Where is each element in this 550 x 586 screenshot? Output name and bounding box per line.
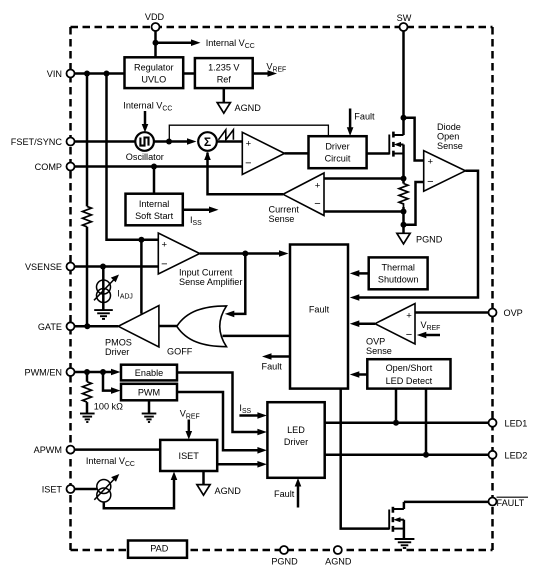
svg-text:+: + (162, 239, 168, 250)
svg-text:Circuit: Circuit (325, 154, 351, 164)
svg-text:LED: LED (287, 425, 305, 435)
svg-text:Sense: Sense (366, 346, 392, 356)
pin FSET/SYNC (67, 138, 75, 146)
svg-text:Input Current: Input Current (179, 268, 233, 278)
wire sigma to error amp (217, 140, 243, 143)
svg-text:Current: Current (269, 205, 300, 215)
wire arrow Vref into ISET (188, 420, 191, 432)
op-amp Input Current Sense Amplifier U8 (158, 233, 199, 274)
wire arrow Internal Vcc into oscillator (144, 111, 147, 125)
current source Iadj (102, 267, 105, 311)
svg-text:PGND: PGND (271, 557, 298, 567)
pin AGND (bottom) (334, 546, 342, 554)
wire PWM block to ground (148, 400, 151, 413)
wire oscillator feedback to Driver Circuit top (169, 125, 328, 141)
junction dot VIN node A (84, 71, 90, 77)
resistor R1 current sense (399, 184, 408, 208)
wire arrow Internal Vcc (top) (156, 41, 193, 44)
transistor Q2 FAULT open-drain NMOS (389, 502, 404, 539)
junction dot VSENSE Iadj branch (100, 264, 106, 270)
junction dot current sense - node (401, 209, 407, 215)
block Open/Short LED Detect (367, 359, 450, 388)
svg-text:−: − (161, 259, 167, 271)
svg-text:100 kΩ: 100 kΩ (94, 402, 123, 412)
junction dot VIN node B (104, 71, 110, 77)
pin SW (400, 23, 408, 31)
svg-text:PWM/EN: PWM/EN (24, 368, 62, 378)
svg-text:AGND: AGND (215, 486, 242, 496)
svg-text:Regulator: Regulator (134, 63, 174, 73)
svg-text:1.235 V: 1.235 V (208, 63, 240, 73)
junction dot COMP soft-start (151, 164, 157, 170)
wire VDD to Regulator UVLO (154, 31, 157, 57)
pin OVP (489, 309, 497, 317)
svg-text:−: − (314, 198, 320, 210)
op-amp OVP Sense U7 (375, 304, 415, 345)
pin COMP (67, 163, 75, 171)
svg-text:OVP: OVP (366, 336, 385, 346)
wire arrow Thermal Shutdown to Fault (358, 272, 369, 275)
junction dot PWM/EN node B (100, 369, 106, 375)
pin PWM/EN (67, 368, 75, 376)
svg-text:Fault: Fault (262, 362, 283, 372)
wire OVP pin to OVP Sense + (415, 311, 489, 314)
ground AGND (ISET) (197, 485, 210, 496)
svg-text:Ref: Ref (217, 75, 232, 85)
svg-text:Open: Open (437, 132, 459, 142)
op-amp error comparator U4 (242, 132, 284, 174)
oscillator U3 (135, 132, 154, 151)
wire arrow Iss output (183, 209, 210, 212)
svg-text:−: − (427, 176, 433, 188)
svg-text:Fault: Fault (309, 305, 330, 315)
block PWM (121, 384, 177, 401)
svg-text:OVP: OVP (504, 308, 523, 318)
block Thermal Shutdown (369, 257, 428, 289)
op-amp Current Sense U5 (283, 173, 324, 216)
wire SW node (402, 31, 405, 135)
wire R2 to GATE line (86, 227, 89, 326)
svg-text:PGND: PGND (416, 235, 443, 245)
junction dot GATE pull-up (84, 323, 90, 329)
junction dot ICSA + branch (138, 237, 144, 243)
wire arrow OVP Sense to Fault (358, 322, 375, 325)
wire oscillator to summing node (154, 140, 188, 143)
pin FAULT active low (489, 498, 497, 506)
svg-text:Σ: Σ (204, 135, 211, 149)
wire APWM to ISET (75, 448, 161, 451)
wire current sense output to sigma (208, 153, 284, 195)
junction dot diode sense - node (401, 222, 407, 228)
wire LED2 output (325, 454, 489, 457)
wire diode open sense output to Fault (358, 171, 478, 298)
svg-text:+: + (315, 180, 321, 191)
svg-text:+: + (246, 139, 252, 150)
junction dot PWM/EN node A (84, 369, 90, 375)
wire COMP to error amp inverting input (75, 165, 243, 168)
wire GOFF gate to PMOS driver (159, 325, 178, 328)
svg-text:FAULT: FAULT (497, 498, 525, 508)
body arrow Q1 (394, 142, 401, 147)
junction dot LED1 (393, 420, 399, 426)
block Fault (290, 245, 348, 389)
block Regulator UVLO (125, 57, 184, 88)
resistor R3 100 kOhm (86, 372, 89, 382)
ground (PWM block) (142, 414, 157, 423)
block Enable (121, 365, 177, 381)
wire Q2 drain to FAULT pin (404, 501, 489, 504)
pin VDD (152, 23, 160, 31)
wire ISET block to AGND (202, 471, 205, 484)
svg-text:Thermal: Thermal (381, 263, 414, 273)
pin ISET (67, 485, 75, 493)
block 1.235 V Ref U2 (195, 58, 253, 88)
wire diode open sense - input (404, 182, 424, 225)
svg-text:GATE: GATE (38, 322, 62, 332)
wire VIN branch to ICSA + input (107, 74, 159, 240)
svg-text:VSENSE: VSENSE (25, 262, 62, 272)
svg-text:−: − (245, 158, 251, 170)
ground (Q2 source) (395, 539, 415, 548)
svg-text:Enable: Enable (135, 368, 163, 378)
pin APWM (67, 446, 75, 454)
ground (Iadj) (94, 310, 113, 319)
svg-text:Fault: Fault (354, 112, 375, 122)
svg-text:ISET: ISET (42, 485, 63, 495)
pin LED1 (489, 419, 497, 427)
junction dot LED2 (423, 452, 429, 458)
svg-text:Shutdown: Shutdown (378, 275, 419, 285)
pin VSENSE (67, 263, 75, 271)
pin LED2 (489, 451, 497, 459)
wire arrow Fault into LED Driver (297, 486, 300, 508)
wire VSENSE to ICSA - input (75, 265, 159, 268)
svg-text:ISET: ISET (179, 451, 200, 461)
pin PGND (bottom) (280, 546, 288, 554)
svg-text:Driver: Driver (325, 142, 349, 152)
wire branch to PMOS driver top (140, 240, 143, 314)
svg-text:GOFF: GOFF (167, 347, 193, 357)
wire Fault to Q2 gate (341, 389, 390, 529)
svg-text:LED1: LED1 (505, 418, 528, 428)
svg-text:Soft Start: Soft Start (135, 211, 174, 221)
wire COMP to Internal Soft Start (153, 167, 156, 194)
current source Iset programming (94, 479, 114, 502)
svg-text:Sense: Sense (269, 214, 295, 224)
svg-text:VIN: VIN (47, 69, 62, 79)
wire arrow ICSA to GOFF input (233, 254, 245, 314)
wire arrow Fault into Driver Circuit (349, 109, 352, 128)
svg-text:AGND: AGND (235, 103, 262, 113)
svg-text:VDD: VDD (145, 12, 165, 22)
transistor Q1 power NMOS switch (389, 132, 403, 184)
wire Regulator to 1.235V Ref (183, 72, 195, 75)
wire arrow Vref to OVP Sense - (425, 334, 440, 337)
svg-text:+: + (428, 156, 434, 167)
junction dot oscillator output (166, 139, 172, 145)
wire error amp to Driver Circuit (285, 152, 309, 155)
or-gate GOFF (177, 306, 227, 347)
svg-text:PWM: PWM (138, 388, 160, 398)
svg-text:LED2: LED2 (505, 450, 528, 460)
wire FSET/SYNC to oscillator (75, 140, 136, 143)
pin GATE (67, 322, 75, 330)
resistor R2 gate pull-up (86, 74, 89, 207)
svg-text:Fault: Fault (274, 489, 295, 499)
svg-text:COMP: COMP (35, 162, 62, 172)
svg-text:Driver: Driver (105, 347, 129, 357)
wire Open/Short to LED1 (395, 389, 398, 423)
wire arrow Iss to LED Driver (239, 414, 258, 417)
wire Open/Short to LED2 (425, 389, 428, 455)
svg-text:Sense Amplifier: Sense Amplifier (179, 277, 242, 287)
block Internal Soft Start (126, 194, 183, 226)
wire Driver Circuit to Q1 gate (367, 152, 390, 155)
svg-text:PMOS: PMOS (105, 338, 132, 348)
svg-text:SW: SW (397, 13, 412, 23)
sawtooth ramp symbol (218, 130, 233, 140)
svg-text:Diode: Diode (437, 122, 461, 132)
wire current sense + input (324, 177, 404, 180)
wire Ref to AGND (223, 88, 226, 102)
block ISET (160, 440, 217, 471)
op-amp Diode Open Sense U6 (424, 151, 466, 192)
wire PWM/EN to Enable (75, 371, 114, 374)
ground (100k resistor) (80, 414, 95, 423)
block Driver Circuit (309, 136, 367, 168)
wire arrow Open/Short to Fault (358, 373, 367, 376)
wire arrow current source to ISET block (104, 480, 174, 509)
ground PGND (sense resistor) (397, 233, 410, 244)
wire ISET pin to current source (75, 488, 97, 491)
block PAD (128, 541, 187, 558)
svg-text:FSET/SYNC: FSET/SYNC (11, 137, 63, 147)
wire Fault to GOFF input (223, 335, 291, 338)
svg-text:Oscillator: Oscillator (126, 152, 164, 162)
wire SW to diode open sense + (404, 118, 424, 161)
body arrow Q2 (393, 517, 400, 522)
wire arrow Fault flag output (271, 355, 291, 358)
ground AGND (under Ref) (217, 103, 230, 114)
wire arrow Vref output (253, 72, 269, 75)
svg-text:+: + (406, 310, 412, 321)
junction dot ICSA output (242, 251, 248, 257)
svg-text:Open/Short: Open/Short (386, 363, 433, 373)
svg-text:APWM: APWM (34, 445, 62, 455)
wire arrow PWM to LED Driver (177, 392, 259, 450)
junction dot SW node (401, 115, 407, 121)
wire GATE to PMOS driver (75, 325, 119, 328)
pin VIN (67, 70, 75, 78)
svg-text:Driver: Driver (284, 437, 308, 447)
junction dot Q1 source sense node (401, 176, 407, 182)
svg-text:AGND: AGND (325, 557, 352, 567)
summing node sigma (198, 132, 217, 151)
arrowhead Iset adjustable (111, 474, 119, 482)
svg-text:PAD: PAD (150, 544, 168, 554)
wire VIN to Regulator UVLO (75, 72, 125, 75)
svg-text:Internal: Internal (139, 199, 169, 209)
wire arrow ICSA output to Fault (200, 252, 281, 255)
buffer PMOS Driver U9 (118, 306, 159, 348)
IC boundary dashed border (71, 27, 493, 550)
wire R1 bottom to PGND (402, 207, 405, 233)
block LED Driver (267, 402, 324, 478)
wire arrow ISET to LED Driver (217, 463, 258, 466)
wire arrow Enable to LED Driver (177, 373, 259, 433)
svg-text:UVLO: UVLO (141, 75, 166, 85)
arrowhead Iadj adjustable (111, 275, 119, 283)
svg-text:−: − (406, 329, 412, 341)
wire LED1 output (325, 422, 489, 425)
wire current sense - input (324, 210, 404, 213)
svg-text:Sense: Sense (437, 141, 463, 151)
junction dot VDD internal Vcc (153, 40, 159, 46)
svg-text:LED Detect: LED Detect (386, 376, 433, 386)
wire arrow PWM/EN to PWM block (103, 372, 112, 391)
